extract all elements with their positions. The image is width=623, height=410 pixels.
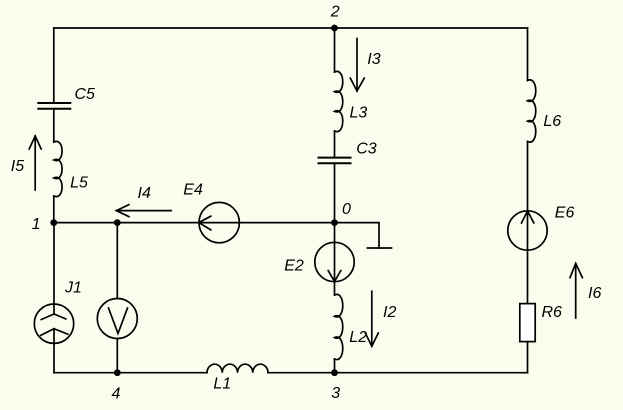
wire R6 to bottom rail xyxy=(527,342,529,373)
svg-text:L6: L6 xyxy=(543,113,561,130)
current arrow I4 xyxy=(116,205,171,217)
wire C3 to node 0 xyxy=(334,163,336,222)
current arrow I3 xyxy=(350,39,364,92)
inductor L1 xyxy=(207,364,268,373)
wire bottom rail right xyxy=(268,372,528,374)
svg-text:J1: J1 xyxy=(64,280,82,297)
current source J1 xyxy=(34,223,73,373)
resistor R6 xyxy=(520,304,535,342)
wire L3 to C3 xyxy=(334,131,336,158)
current arrow I2 xyxy=(365,291,378,346)
svg-text:I4: I4 xyxy=(138,185,151,202)
svg-text:I6: I6 xyxy=(588,285,601,302)
source E6 xyxy=(508,211,547,250)
wire top rail xyxy=(54,27,528,29)
source E2 xyxy=(315,223,354,282)
svg-text:I3: I3 xyxy=(367,51,380,68)
svg-text:3: 3 xyxy=(331,385,340,402)
wire left branch upper (node2 corner to C5) xyxy=(53,28,55,103)
svg-text:L3: L3 xyxy=(350,105,368,122)
svg-text:R6: R6 xyxy=(542,304,563,321)
svg-text:L5: L5 xyxy=(70,175,88,192)
svg-text:L2: L2 xyxy=(349,329,367,346)
node 2 xyxy=(331,25,338,32)
capacitor C5 xyxy=(38,103,70,109)
current arrow I6 xyxy=(570,263,582,318)
wire L6 to E6 xyxy=(527,142,529,211)
current arrow I5 xyxy=(29,136,41,190)
wire node2 to L3 xyxy=(334,28,336,72)
svg-text:E6: E6 xyxy=(555,205,575,222)
wire E6 to R6 xyxy=(527,250,529,303)
svg-text:4: 4 xyxy=(112,386,121,403)
svg-text:E2: E2 xyxy=(284,258,304,275)
node 0 xyxy=(331,219,338,226)
node 1 xyxy=(50,219,57,226)
node 3 xyxy=(331,369,338,376)
svg-text:I5: I5 xyxy=(11,158,24,175)
node 4 xyxy=(114,369,121,376)
junction node on node1 wire (voltmeter tap) xyxy=(114,219,121,226)
wire E2 to L2 xyxy=(334,282,336,295)
wire right branch top xyxy=(527,28,529,81)
svg-text:L1: L1 xyxy=(213,376,231,393)
wire L2 to node 3 xyxy=(334,359,336,373)
svg-text:C3: C3 xyxy=(356,141,377,158)
svg-text:I2: I2 xyxy=(383,304,396,321)
capacitor C3 xyxy=(319,158,351,164)
ground xyxy=(335,223,392,248)
inductor L6 xyxy=(528,80,536,142)
svg-text:E4: E4 xyxy=(183,182,203,199)
wire L5 to node 1 xyxy=(53,196,55,223)
svg-text:C5: C5 xyxy=(75,86,96,103)
source E4 xyxy=(199,202,240,242)
wire C5 to L5 xyxy=(53,109,55,142)
inductor L3 xyxy=(335,71,343,131)
wire bottom rail left xyxy=(54,372,207,374)
wire node1 horizontal to node 0 xyxy=(54,222,335,224)
svg-text:1: 1 xyxy=(32,216,41,233)
svg-text:0: 0 xyxy=(342,201,351,218)
inductor L2 xyxy=(335,294,343,359)
svg-text:2: 2 xyxy=(330,4,340,21)
inductor L5 xyxy=(54,141,62,196)
voltmeter V xyxy=(97,223,137,373)
